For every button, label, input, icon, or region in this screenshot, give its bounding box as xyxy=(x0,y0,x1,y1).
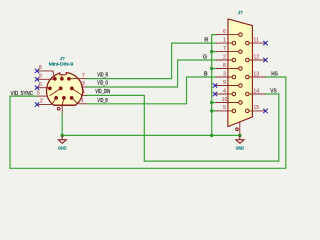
svg-text:6: 6 xyxy=(39,82,42,88)
svg-text:5: 5 xyxy=(223,105,226,111)
svg-text:2: 2 xyxy=(40,99,43,105)
svg-text:Mini-DIN-9: Mini-DIN-9 xyxy=(49,62,74,67)
svg-text:VID_R: VID_R xyxy=(97,72,108,78)
svg-text:HS: HS xyxy=(271,72,278,78)
svg-text:VS: VS xyxy=(270,89,277,95)
svg-text:3: 3 xyxy=(82,81,85,87)
svg-text:4: 4 xyxy=(82,90,85,96)
svg-text:J?: J? xyxy=(60,56,65,61)
svg-text:B: B xyxy=(204,72,208,78)
svg-text:5: 5 xyxy=(37,90,40,96)
svg-text:13: 13 xyxy=(253,71,259,77)
svg-text:12: 12 xyxy=(253,54,259,60)
svg-text:11: 11 xyxy=(253,37,258,43)
svg-text:3: 3 xyxy=(223,71,226,77)
svg-text:VID_G: VID_G xyxy=(97,81,108,87)
svg-text:2: 2 xyxy=(223,54,226,60)
svg-text:1: 1 xyxy=(223,37,226,43)
svg-text:GND: GND xyxy=(58,145,67,150)
svg-text:6: 6 xyxy=(223,29,226,35)
svg-text:8: 8 xyxy=(223,63,226,69)
svg-text:GND: GND xyxy=(236,145,245,150)
svg-text:14: 14 xyxy=(253,88,259,94)
svg-text:9: 9 xyxy=(39,74,42,80)
svg-text:VID_DIN: VID_DIN xyxy=(95,89,110,95)
svg-text:7: 7 xyxy=(223,46,226,52)
svg-text:9: 9 xyxy=(223,80,226,86)
svg-text:1: 1 xyxy=(81,98,84,104)
svg-text:G: G xyxy=(203,55,207,61)
svg-text:R: R xyxy=(204,38,208,44)
svg-text:4: 4 xyxy=(223,88,226,94)
svg-text:VID_SYNC: VID_SYNC xyxy=(11,91,33,97)
svg-text:15: 15 xyxy=(253,105,259,111)
svg-text:7: 7 xyxy=(82,73,85,79)
svg-text:J?: J? xyxy=(238,10,243,15)
svg-text:VID_B: VID_B xyxy=(97,98,108,104)
svg-text:10: 10 xyxy=(222,97,228,103)
svg-text:8: 8 xyxy=(39,65,42,71)
